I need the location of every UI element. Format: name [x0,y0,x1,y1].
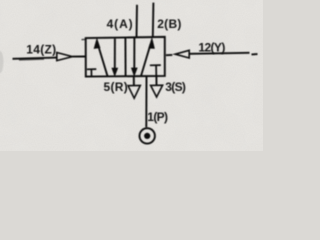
svg-text:12(Y): 12(Y) [198,40,225,54]
svg-text:5(R): 5(R) [104,80,129,94]
svg-text:14(Z): 14(Z) [26,42,56,56]
svg-text:4(A): 4(A) [107,17,134,31]
svg-text:3(S): 3(S) [165,80,186,94]
svg-text:1(P): 1(P) [147,110,168,124]
svg-text:2(B): 2(B) [157,17,182,31]
